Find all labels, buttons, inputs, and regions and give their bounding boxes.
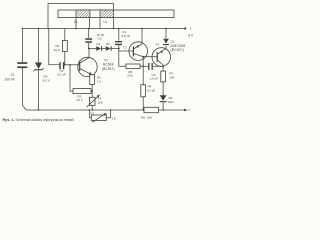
svg-text:3,3 nF: 3,3 nF <box>57 73 66 77</box>
capacitor C3 <box>59 62 79 69</box>
svg-text:T2: T2 <box>123 45 127 49</box>
svg-text:C2: C2 <box>98 37 102 41</box>
resistor R4 <box>141 85 146 111</box>
svg-text:Rys. 1. Schemat układu wykrywa: Rys. 1. Schemat układu wykrywacza metali <box>3 118 74 122</box>
svg-text:6,2 V: 6,2 V <box>43 79 51 83</box>
wire T2 base stub <box>119 50 134 52</box>
svg-text:P1: P1 <box>91 112 95 116</box>
resistor R3 <box>73 89 92 94</box>
capacitor C5 <box>148 63 163 70</box>
LED D5 <box>160 95 167 111</box>
top supply rail <box>22 28 186 30</box>
svg-text:C1: C1 <box>11 73 15 77</box>
transistor T3 <box>152 45 171 71</box>
svg-text:+: + <box>190 27 192 31</box>
wire C3 feed from rail <box>49 29 60 65</box>
svg-text:T1: T1 <box>104 58 108 62</box>
coil L1 winding <box>76 10 90 18</box>
resistor R2 <box>90 75 95 98</box>
terminal +9V <box>184 27 186 29</box>
resistor R1 <box>62 29 67 66</box>
coil L2 winding <box>100 10 114 18</box>
svg-text:1,5 nF: 1,5 nF <box>150 77 159 81</box>
svg-text:(BC547): (BC547) <box>102 67 115 71</box>
svg-text:22 K: 22 K <box>54 48 60 52</box>
svg-text:1 k: 1 k <box>112 117 117 121</box>
svg-text:9 V: 9 V <box>188 33 194 37</box>
svg-text:L1: L1 <box>74 20 78 24</box>
node T1 base junction <box>69 64 71 66</box>
node L2 rail <box>113 28 115 30</box>
terminal 0V <box>184 109 191 111</box>
resistor R8 <box>144 107 159 112</box>
potentiometer P1 <box>89 109 112 122</box>
node L1 rail <box>75 28 77 30</box>
svg-text:190: 190 <box>169 75 174 79</box>
svg-text:D1: D1 <box>171 39 175 43</box>
diode D1 <box>163 28 169 45</box>
wire top loop from rail up over to L2 <box>48 4 114 29</box>
wire L2 right terminal <box>113 18 115 29</box>
wire L1 left terminal <box>75 18 77 29</box>
node T2 collector <box>142 56 144 58</box>
svg-text:22 k: 22 k <box>127 74 133 78</box>
capacitor C1 <box>17 29 27 111</box>
svg-text:0,1 µF: 0,1 µF <box>147 88 156 92</box>
transistor T1 <box>78 49 97 77</box>
svg-text:BC548: BC548 <box>103 63 114 67</box>
wire T2 collector to T3 base <box>143 56 157 58</box>
potentiometer P2 <box>87 95 100 111</box>
resistor R7 <box>161 71 166 95</box>
diode D3 <box>106 46 119 51</box>
wire L2 left terminal <box>99 18 101 29</box>
svg-text:(BC307): (BC307) <box>171 48 184 52</box>
svg-text:10 k: 10 k <box>77 98 83 102</box>
svg-text:D2: D2 <box>97 42 101 46</box>
svg-text:D3: D3 <box>106 42 110 46</box>
capacitor C2 <box>85 28 92 50</box>
svg-text:2xBC558: 2xBC558 <box>170 44 185 48</box>
svg-text:R8 150: R8 150 <box>141 115 153 119</box>
svg-text:6,8 nF: 6,8 nF <box>122 34 131 38</box>
svg-text:T3: T3 <box>156 42 160 46</box>
capacitor C4 <box>115 28 122 67</box>
svg-text:100 nF: 100 nF <box>5 78 15 82</box>
wire L1 right terminal <box>89 18 91 29</box>
svg-text:1 k: 1 k <box>97 80 102 84</box>
svg-text:L2: L2 <box>104 20 108 24</box>
zener diode D4 <box>33 28 43 110</box>
resistor R6 <box>119 64 148 69</box>
wire C2 to D2 <box>89 48 97 50</box>
ferrite rod core <box>58 10 174 18</box>
svg-text:10 k: 10 k <box>97 101 103 105</box>
node D4 bottom <box>38 109 40 111</box>
bottom rail left segment <box>26 109 144 111</box>
transistor T2 <box>129 28 148 61</box>
diode D2 <box>96 46 106 51</box>
bottom rail right segment <box>159 109 186 111</box>
svg-text:LED: LED <box>168 100 175 104</box>
wire T2 collector down to bottom rail <box>142 57 144 110</box>
wire base node down to R3 <box>70 65 73 91</box>
